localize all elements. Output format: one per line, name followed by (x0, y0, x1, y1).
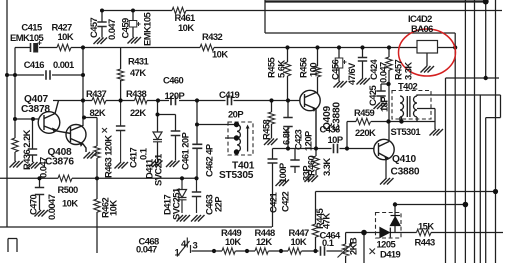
svg-text:47K: 47K (321, 213, 332, 229)
svg-text:3: 3 (193, 240, 198, 251)
svg-text:0.047: 0.047 (136, 244, 157, 255)
svg-text:R463 120K: R463 120K (103, 135, 114, 178)
svg-text:10K: 10K (212, 49, 228, 60)
svg-text:0.047: 0.047 (38, 157, 49, 178)
svg-text:C425: C425 (367, 85, 378, 106)
svg-text:C457: C457 (88, 17, 99, 38)
svg-text:2KB: 2KB (348, 237, 359, 255)
svg-text:C462 4P: C462 4P (204, 144, 215, 177)
svg-text:C419: C419 (219, 89, 240, 100)
svg-text:10K: 10K (108, 200, 119, 216)
svg-text:22K: 22K (130, 107, 146, 118)
svg-text:10K: 10K (62, 198, 78, 209)
svg-text:0.1: 0.1 (322, 237, 334, 248)
svg-text:C3880: C3880 (391, 167, 420, 178)
svg-text:4: 4 (181, 238, 187, 249)
svg-text:R436 2.2K: R436 2.2K (21, 129, 32, 170)
svg-text:C416: C416 (24, 59, 45, 70)
svg-text:C3880: C3880 (332, 102, 343, 131)
svg-text:R438: R438 (126, 88, 147, 99)
svg-text:220K: 220K (355, 127, 376, 138)
svg-text:EMK105: EMK105 (142, 12, 153, 46)
svg-text:C461 20P: C461 20P (180, 132, 191, 170)
svg-text:C422: C422 (280, 191, 291, 212)
svg-text:10K: 10K (58, 31, 74, 42)
svg-text:3.3K: 3.3K (321, 158, 332, 176)
svg-text:R431: R431 (128, 56, 149, 67)
svg-text:EMK105: EMK105 (10, 32, 44, 43)
svg-text:Q410: Q410 (392, 154, 417, 165)
svg-text:C421: C421 (268, 192, 279, 213)
svg-text:BA06: BA06 (411, 23, 433, 34)
svg-text:10P: 10P (328, 134, 343, 145)
svg-text:47/6V: 47/6V (346, 62, 357, 85)
svg-text:C459: C459 (120, 18, 131, 39)
svg-text:0.047: 0.047 (378, 62, 389, 83)
svg-text:6.8K: 6.8K (281, 127, 292, 145)
svg-text:R458: R458 (261, 119, 272, 140)
svg-text:R443: R443 (415, 237, 436, 248)
svg-text:15K: 15K (418, 221, 434, 232)
svg-text:SVC251: SVC251 (171, 188, 182, 220)
svg-text:D419: D419 (380, 249, 401, 260)
svg-text:20P: 20P (228, 109, 243, 120)
svg-text:SVC251: SVC251 (153, 154, 164, 186)
svg-text:10K: 10K (178, 22, 194, 33)
svg-text:47K: 47K (130, 67, 146, 78)
svg-text:C460: C460 (163, 75, 184, 86)
svg-text:100P: 100P (277, 163, 288, 183)
svg-text:18P: 18P (379, 97, 390, 112)
svg-text:120P: 120P (303, 131, 314, 151)
svg-text:0.1: 0.1 (138, 148, 149, 160)
svg-text:0.047: 0.047 (106, 19, 117, 40)
svg-text:0.001: 0.001 (53, 59, 74, 70)
svg-text:C3878: C3878 (21, 104, 50, 115)
svg-text:120P: 120P (165, 90, 185, 101)
svg-text:R459: R459 (354, 107, 375, 118)
svg-text:3.3K: 3.3K (403, 62, 414, 80)
svg-text:10K: 10K (291, 236, 307, 247)
svg-text:R460: R460 (306, 155, 317, 176)
svg-text:C456: C456 (330, 59, 341, 80)
svg-text:5.6K: 5.6K (276, 60, 287, 78)
svg-text:T402: T402 (398, 81, 418, 92)
svg-text:0.0047: 0.0047 (46, 194, 57, 220)
svg-text:ST5305: ST5305 (219, 170, 254, 181)
svg-text:C470: C470 (28, 194, 39, 215)
svg-text:22P: 22P (213, 197, 224, 212)
svg-text:10K: 10K (225, 236, 241, 247)
svg-text:C3876: C3876 (45, 157, 74, 168)
svg-text:R437: R437 (86, 88, 107, 99)
svg-text:100: 100 (308, 63, 319, 77)
svg-text:ST5301: ST5301 (391, 126, 421, 137)
svg-text:82K: 82K (90, 107, 106, 118)
svg-text:1: 1 (175, 247, 180, 258)
svg-text:R432: R432 (202, 31, 223, 42)
svg-text:R500: R500 (58, 184, 79, 195)
svg-text:12K: 12K (256, 236, 272, 247)
